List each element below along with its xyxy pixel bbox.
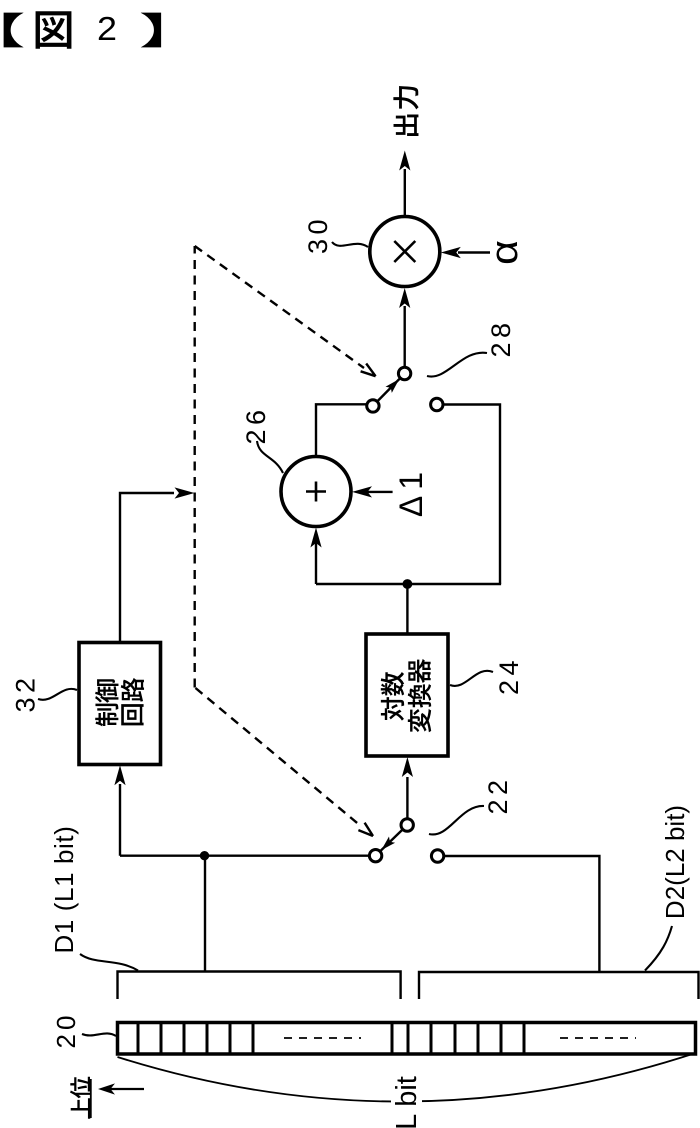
svg-text:Δ1: Δ1	[393, 466, 429, 517]
svg-text:28: 28	[486, 318, 516, 357]
svg-text:24: 24	[494, 656, 524, 695]
svg-text:26: 26	[241, 405, 271, 444]
svg-text:32: 32	[11, 673, 41, 712]
svg-text:30: 30	[303, 215, 333, 254]
svg-text:2: 2	[97, 11, 117, 48]
svg-text:20: 20	[51, 1012, 81, 1049]
svg-text:L bit: L bit	[391, 1076, 423, 1128]
svg-text:D1 (L1 bit): D1 (L1 bit)	[49, 826, 79, 954]
svg-text:α: α	[484, 240, 526, 265]
svg-text:D2(L2 bit): D2(L2 bit)	[660, 805, 690, 919]
svg-text:22: 22	[483, 775, 513, 814]
